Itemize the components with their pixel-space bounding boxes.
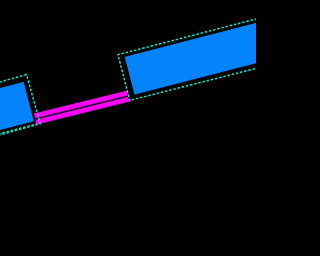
magenta rope joint [35,96,129,119]
small box body [0,76,36,136]
small box ghost outline [0,75,40,138]
big box body [117,13,291,101]
ground ramp line [0,68,256,134]
